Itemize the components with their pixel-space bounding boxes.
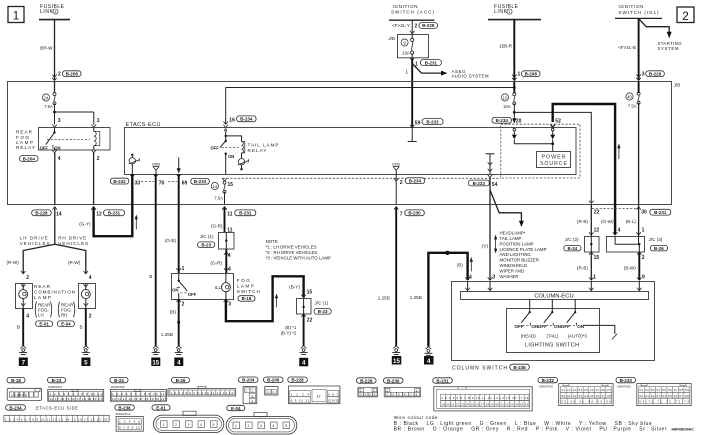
ground 4 (fog switch): [174, 346, 183, 367]
svg-text:7.5A: 7.5A: [44, 104, 53, 109]
svg-text:15: 15: [393, 358, 400, 365]
svg-text:10: 10: [503, 95, 508, 100]
wire G-R J/C(1) to fog switch: [211, 249, 231, 274]
svg-text:SWITCH (IG1): SWITCH (IG1): [619, 10, 659, 15]
pin 2 B-208: [52, 71, 81, 81]
svg-text:LH: LH: [38, 312, 44, 317]
svg-text:4: 4: [273, 424, 275, 428]
svg-text:4: 4: [55, 10, 57, 14]
svg-text:POSITION LAMP: POSITION LAMP: [500, 241, 534, 246]
(HEAD)(TAIL)(AUTO) labels: [521, 334, 588, 339]
svg-text:1 2 3 4 5 6 7 8 9 10 11: 1 2 3 4 5 6 7 8 9 10 11: [112, 392, 165, 396]
svg-text:OFF: OFF: [210, 146, 219, 151]
svg-text:2: 2: [415, 23, 418, 29]
svg-text:4: 4: [228, 253, 231, 259]
ignition switch (ACC) bar: [389, 19, 435, 21]
svg-text:7.5A: 7.5A: [214, 196, 223, 201]
svg-text:1: 1: [509, 10, 511, 14]
svg-text:OFF: OFF: [538, 324, 547, 329]
svg-text:RH: RH: [61, 312, 67, 317]
diode 2 from pin 52: [550, 119, 561, 152]
column switch label B-238: [452, 364, 529, 371]
svg-text:GND: GND: [392, 163, 401, 167]
ignition switch (ACC) label: [391, 4, 434, 14]
fog switch pin 1: [176, 266, 184, 272]
fuse 10 10A: [501, 93, 515, 109]
svg-text:LINK: LINK: [494, 9, 508, 15]
svg-text:(G-R): (G-R): [211, 261, 223, 266]
svg-text:9: 9: [642, 275, 645, 281]
pin 59 entry and stub: [408, 119, 443, 142]
svg-text:4: 4: [200, 423, 202, 427]
svg-text:B-18: B-18: [242, 296, 252, 301]
direction arrow beside ILL- wire: [275, 294, 278, 308]
svg-text:(G-B): (G-B): [165, 238, 177, 243]
pin 54 internal stub: [486, 154, 495, 174]
svg-text:B-230: B-230: [408, 211, 421, 216]
wire down to ETACS pin 16: [223, 88, 256, 128]
ground 4 (J/C1-22): [299, 346, 308, 367]
systems list text: [500, 231, 547, 279]
svg-text:E-01: E-01: [156, 405, 166, 410]
fuse 14 7.5A (tail lamp output): [211, 178, 233, 204]
svg-text:22: 22: [307, 318, 313, 324]
svg-text:2: 2: [175, 423, 177, 427]
fusible link (4) label: [40, 4, 65, 15]
svg-text:LH DRIVE: LH DRIVE: [20, 236, 48, 241]
svg-text:J/C (1): J/C (1): [315, 300, 329, 305]
svg-text:ON: ON: [228, 154, 234, 159]
svg-text:B: B: [149, 274, 152, 279]
NOTE block: [266, 239, 331, 261]
svg-text:15B-R: 15B-R: [499, 44, 513, 49]
pin 54 B-233: [468, 175, 497, 188]
svg-text:IGNITION: IGNITION: [393, 4, 418, 9]
junction block J/B box: [8, 82, 672, 205]
svg-text:RELAY: RELAY: [248, 148, 267, 153]
svg-text:GND: GND: [152, 163, 161, 167]
svg-text:(G-R): (G-R): [211, 224, 223, 229]
svg-text:B-238: B-238: [513, 365, 526, 370]
pin 12 B-231: [91, 207, 124, 218]
svg-text:2: 2: [97, 156, 100, 162]
svg-text:06A637KG: 06A637KG: [617, 384, 631, 388]
wire 1.25B pin7 to ground 15: [378, 207, 396, 346]
svg-text:40: 40: [627, 94, 632, 99]
svg-text:8 9 10 11: 8 9 10 11: [291, 399, 310, 403]
svg-text:E-04: E-04: [61, 322, 71, 327]
svg-text:B-228: B-228: [291, 378, 304, 383]
direction arrow beside (B) wire: [470, 257, 473, 271]
svg-text:RH DRIVE: RH DRIVE: [58, 236, 86, 241]
wire relay pin4 to J/B pin14: [54, 153, 56, 205]
svg-text:(V): (V): [482, 244, 489, 249]
wire BR-W from fusible link 4: [54, 20, 56, 81]
svg-text:1: 1: [13, 9, 20, 23]
wire colors R-W: [7, 260, 81, 265]
svg-text:4: 4: [427, 358, 431, 365]
svg-text:B-208: B-208: [66, 71, 79, 76]
svg-text:REAR: REAR: [34, 284, 51, 289]
svg-text:*1 : LH DRIVE VEHICLES: *1 : LH DRIVE VEHICLES: [266, 245, 317, 250]
svg-text:B-234: B-234: [496, 118, 509, 123]
connector B-238: [115, 405, 144, 431]
svg-text:1 2 3 4 5 6 7 8 9 10 11 12 13: 1 2 3 4 5 6 7 8 9 10 11 12 13 14 15 16 1…: [5, 417, 107, 421]
svg-text:1.25B: 1.25B: [161, 332, 173, 337]
svg-text:33: 33: [135, 180, 141, 186]
svg-text:12: 12: [594, 227, 600, 233]
svg-text:1.25B: 1.25B: [378, 295, 390, 300]
connector B-231: [433, 378, 532, 411]
svg-text:15: 15: [307, 289, 313, 295]
svg-text:<F>2L-B: <F>2L-B: [618, 45, 636, 50]
svg-text:ILL: ILL: [215, 285, 222, 290]
svg-text:3: 3: [260, 424, 262, 428]
thick 1.25B wire to column switch pin 4: [410, 251, 470, 347]
svg-text:2: 2: [182, 302, 185, 308]
svg-text:MONITOR BUZZER: MONITOR BUZZER: [500, 258, 539, 263]
svg-text:E-01: E-01: [39, 322, 49, 327]
J/C(1) pin 22 to ground: [281, 314, 313, 346]
svg-text:2: 2: [248, 424, 250, 428]
svg-text:1: 1: [182, 266, 185, 272]
svg-text:SWITCH (ACC): SWITCH (ACC): [391, 9, 434, 14]
svg-text:(B-W): (B-W): [624, 266, 636, 271]
svg-text:COMBINATION: COMBINATION: [34, 289, 75, 294]
svg-text:1 2 3 4 5 6: 1 2 3 4 5 6: [11, 393, 27, 397]
column switch pin labels: [469, 275, 495, 281]
branch to other systems: [490, 190, 524, 227]
connector B-234: [4, 405, 109, 422]
lighting switch box: [507, 309, 600, 353]
(REAR FOG: RH) label: [58, 302, 75, 318]
svg-text:WINDSHIELD: WINDSHIELD: [500, 263, 528, 268]
svg-text:B-26: B-26: [176, 378, 186, 383]
svg-text:3: 3: [492, 275, 495, 281]
svg-text:12: 12: [96, 211, 102, 217]
rear fog relay coil driver: [129, 154, 140, 174]
connector B-206: [264, 377, 284, 395]
svg-text:WASHER: WASHER: [500, 274, 519, 279]
connector E-01: [152, 405, 224, 433]
svg-text:(TAIL): (TAIL): [547, 334, 559, 339]
ignition switch (IG1) label: [619, 4, 659, 15]
branch to pin 22 (column ECU feed): [514, 112, 593, 203]
svg-text:B-204: B-204: [242, 378, 255, 383]
wire L (ACC feed): [406, 59, 412, 128]
svg-text:30 31 32 33 34 35 36 37 38: 30 31 32 33 34 35 36 37 38: [561, 394, 611, 398]
relay pins 4 and 2: [52, 150, 100, 162]
fusible link (1) label: [494, 4, 519, 15]
connector B-18: [7, 377, 42, 400]
svg-text:J/C (1): J/C (1): [200, 234, 214, 239]
svg-text:J/C (2): J/C (2): [565, 237, 579, 242]
svg-text:1 2 3 4 5: 1 2 3 4 5: [119, 420, 140, 424]
svg-text:2: 2: [642, 255, 645, 261]
svg-text:LINK: LINK: [40, 9, 54, 15]
fusible link (4) symbol: [39, 19, 70, 21]
svg-text:*2 : RH DRIVE VEHICLES: *2 : RH DRIVE VEHICLES: [266, 250, 318, 255]
LH lamp pin 4 and ground wire: [17, 309, 29, 346]
svg-text:B: B: [17, 324, 20, 329]
svg-text:B-232: B-232: [542, 378, 555, 383]
svg-text:B-24: B-24: [114, 378, 124, 383]
svg-text:(B-L): (B-L): [626, 219, 637, 224]
svg-text:70: 70: [159, 180, 165, 186]
svg-text:1 2 3 4 5 6 7 8 9 10 11: 1 2 3 4 5 6 7 8 9 10 11: [49, 392, 102, 396]
svg-text:B-231: B-231: [425, 60, 438, 65]
svg-text:10A: 10A: [503, 104, 511, 109]
pin 1 B-231: [415, 60, 441, 68]
svg-text:ETACS-ECU: ETACS-ECU: [126, 122, 161, 128]
svg-text:LAMP: LAMP: [237, 283, 254, 288]
svg-text:5: 5: [84, 359, 88, 366]
svg-text:13 14 15: 13 14 15: [328, 399, 339, 403]
svg-text:E-04: E-04: [231, 406, 241, 411]
wire fuse40 to pin 30: [638, 103, 640, 205]
svg-text:FOG: FOG: [237, 278, 250, 283]
svg-text:52: 52: [555, 119, 561, 125]
junction connector J/C(1) B-23 (second): [297, 299, 332, 315]
svg-text:21 22 23 24 25 26 27 28 29: 21 22 23 24 25 26 27 28 29: [561, 388, 611, 392]
dashed connector line: [223, 177, 501, 179]
svg-text:(B) *1: (B) *1: [285, 325, 297, 330]
svg-text:1 2 3 4: 1 2 3 4: [291, 392, 310, 396]
svg-text:2: 2: [58, 72, 61, 78]
svg-text:B-233: B-233: [194, 179, 207, 184]
rear combination lamp LH box: [16, 283, 33, 308]
svg-text:1: 1: [97, 118, 100, 124]
svg-text:ON: ON: [172, 287, 178, 292]
tail lamp relay label: [248, 143, 279, 154]
svg-text:7: 7: [400, 211, 403, 217]
wire colour code legend: [394, 415, 667, 432]
svg-text:B-234: B-234: [240, 117, 253, 122]
svg-text:J/B: J/B: [674, 83, 681, 88]
svg-text:12 13 14 15 16 17 18 19 20 21: 12 13 14 15 16 17 18 19 20 21: [112, 397, 165, 401]
svg-text:BR : Brown O : Orange GR: BR : Brown O : Orange GR : Grey R : Red …: [394, 427, 667, 433]
node below fuse 24: [52, 103, 100, 127]
pin69 internal arrow: [177, 158, 181, 174]
svg-text:3: 3: [642, 72, 645, 78]
page ref box 1: [8, 7, 24, 23]
wire R-B pin22 to J/C(2): [577, 204, 599, 236]
fog lamp switch label B-18: [237, 278, 260, 301]
svg-text:ETACS-ECU SIDE: ETACS-ECU SIDE: [36, 406, 78, 411]
rear combination lamp RH box: [79, 283, 96, 308]
wire G-Y pin33 to pin12 (U path): [79, 174, 132, 236]
svg-text:4: 4: [469, 275, 472, 281]
svg-text:B-23: B-23: [201, 242, 211, 247]
svg-text:B-233: B-233: [426, 119, 439, 124]
connector B-204: [239, 377, 259, 404]
ground 7: [19, 346, 28, 367]
svg-text:B-206: B-206: [267, 378, 280, 383]
node below fuse 10: [513, 103, 516, 122]
(REAR FOG: LH) label: [35, 302, 52, 318]
fog lamp switch box: [172, 274, 234, 300]
column switch outer box: [452, 282, 655, 361]
svg-text:B-234: B-234: [409, 179, 422, 184]
ETACS-ECU box: [125, 128, 577, 175]
connector B-24: [110, 377, 166, 401]
svg-text:69: 69: [182, 180, 188, 186]
svg-text:POWER: POWER: [542, 155, 566, 161]
svg-text:22: 22: [594, 209, 600, 215]
fog switch contact: [172, 274, 196, 299]
svg-text:1: 1: [235, 424, 237, 428]
power source box: [537, 152, 571, 168]
svg-text:J/C (3): J/C (3): [649, 237, 663, 242]
rear fog relay contact: [40, 127, 90, 150]
svg-text:VEHICLES: VEHICLES: [58, 241, 88, 246]
svg-text:1.25B: 1.25B: [410, 295, 422, 300]
svg-text:2: 2: [682, 9, 689, 23]
rear fog relay coil: [94, 127, 100, 150]
svg-text:LAMP: LAMP: [34, 295, 51, 300]
svg-text:OFF: OFF: [515, 324, 524, 329]
rear fog lamp relay label: [16, 130, 35, 151]
ETACS ground GND pin70: [152, 163, 161, 175]
connector B-23: [48, 377, 104, 401]
svg-text:7.5A: 7.5A: [628, 104, 637, 109]
svg-text:(HEAD): (HEAD): [521, 334, 537, 339]
wire B-W J/C(3) to column pin 9: [624, 252, 645, 281]
svg-text:B-233: B-233: [620, 378, 633, 383]
svg-text:16: 16: [229, 118, 235, 124]
ground 5: [81, 346, 90, 367]
branch arrow to starting system: [639, 18, 682, 51]
svg-text:HEADLAMP*: HEADLAMP*: [500, 231, 526, 236]
svg-text:OFF: OFF: [188, 292, 197, 297]
svg-text:60 61 62 63 64 65 66 67 68: 60 61 62 63 64 65 66 67 68: [639, 394, 689, 398]
svg-text:51 52 53 54 55 56 57 58 59: 51 52 53 54 55 56 57 58 59: [639, 388, 689, 392]
svg-text:B-228: B-228: [422, 23, 435, 28]
lamp pin labels: [21, 271, 92, 281]
svg-text:(B-Y): (B-Y): [289, 285, 300, 290]
svg-text:15: 15: [594, 255, 600, 261]
svg-text:4: 4: [177, 359, 181, 366]
wire relay pin2 to J/B pin12: [93, 153, 95, 205]
ground 4 (column switch): [424, 347, 434, 365]
pin 7 B-230: [394, 207, 424, 218]
junction connector J/C(1) B-23: [198, 232, 234, 249]
svg-text:B-23: B-23: [52, 378, 62, 383]
ETACS pin 70: [153, 174, 164, 186]
fuse 24 7.5A: [42, 82, 56, 109]
svg-text:1: 1: [642, 227, 645, 233]
lighting switch OFF/ON labels: [515, 323, 585, 329]
svg-text:ON: ON: [54, 146, 60, 151]
svg-text:1: 1: [163, 423, 165, 427]
svg-text:IGNITION: IGNITION: [619, 4, 644, 9]
svg-text:(G-Y): (G-Y): [79, 222, 91, 227]
svg-text:5 6 7: 5 6 7: [328, 392, 338, 396]
svg-text:OFF: OFF: [40, 146, 49, 151]
svg-text:20: 20: [516, 119, 522, 125]
svg-text:54: 54: [492, 182, 498, 188]
ETACS pin 69 B-233: [176, 174, 209, 186]
svg-text:MU801513: MU801513: [48, 385, 62, 389]
wire G-W label and pin 4: [601, 219, 621, 235]
svg-text:1 2 3 4 5 6 7 8 9 10 11 12 13: 1 2 3 4 5 6 7 8 9 10 11 12 13 14: [170, 391, 233, 395]
pin 20 B-234: [492, 117, 522, 124]
connector labels E-01 E-04: [36, 321, 75, 327]
power source diodes: [512, 128, 553, 144]
connector B-229: [357, 378, 378, 397]
thick G-W wire pin52 to J/C(3): [550, 104, 615, 235]
J/B fuse box at ACC: [388, 35, 428, 58]
svg-text:2: 2: [89, 314, 92, 320]
fuse 9 10A: [401, 31, 414, 61]
svg-text:(R-W): (R-W): [68, 260, 81, 265]
svg-text:B-26: B-26: [654, 246, 664, 251]
svg-text:LICENCE PLATE LAMP: LICENCE PLATE LAMP: [500, 247, 547, 252]
svg-text:06A637KG: 06A637KG: [539, 384, 553, 388]
svg-text:B-24: B-24: [568, 246, 578, 251]
svg-text:J/B: J/B: [388, 36, 395, 41]
svg-text:3: 3: [188, 423, 190, 427]
svg-text:B-230: B-230: [387, 378, 400, 383]
wire pin14 split: [23, 207, 86, 274]
svg-text:RELAY: RELAY: [16, 145, 35, 150]
svg-text:4: 4: [228, 266, 231, 272]
fuse 40 7.5A: [626, 82, 640, 109]
svg-text:(B): (B): [170, 310, 177, 315]
svg-text:2: 2: [400, 180, 403, 186]
connector E-04: [226, 405, 297, 434]
wire 2L-B: [618, 18, 638, 80]
lighting switch contacts: [521, 299, 576, 323]
wire B-Y to J/C(1) pin 15: [289, 285, 312, 298]
pin 2 B-228: [415, 23, 438, 30]
svg-text:11: 11: [227, 211, 233, 217]
svg-text:2: 2: [26, 275, 29, 281]
connector B-233: [616, 377, 691, 405]
svg-text:B-208: B-208: [525, 71, 538, 76]
wire G-B pin69 to fog switch pin1: [165, 174, 179, 274]
connector B-230: [384, 378, 421, 397]
svg-text:SYSTEM: SYSTEM: [658, 46, 679, 51]
svg-text:AUDIO SYSTEM: AUDIO SYSTEM: [452, 74, 489, 79]
junction connector J/C(3) B-26: [607, 236, 668, 252]
ETACS pin 33 B-232: [110, 174, 140, 186]
svg-text:(R-B): (R-B): [577, 266, 588, 271]
svg-text:1 2 3 4 5 6 7 8 9 10 11 12 13: 1 2 3 4 5 6 7 8 9 10 11 12 13 14 15 16 1…: [441, 396, 528, 400]
svg-text:B-228: B-228: [35, 211, 48, 216]
svg-text:(B-Y) *2: (B-Y) *2: [281, 331, 297, 336]
svg-text:L: L: [406, 70, 409, 76]
svg-text:7: 7: [22, 359, 26, 366]
tail lamp relay coil: [226, 136, 245, 158]
svg-text:30: 30: [641, 209, 647, 215]
fog switch pin 2 earth wire: [161, 299, 185, 346]
wire R-B J/C(2) to column pin 1: [577, 252, 599, 281]
svg-text:4: 4: [26, 314, 29, 320]
svg-text:06A637K14: 06A637K14: [116, 412, 131, 416]
fog switch pin 3 ILL- wire: [224, 276, 304, 321]
svg-text:(B): (B): [457, 263, 464, 268]
svg-text:NOTE: NOTE: [266, 239, 278, 244]
pin 1 B-208: [512, 71, 540, 81]
dashed between 22 and 30: [592, 208, 638, 210]
svg-text:10A: 10A: [402, 51, 410, 56]
pin 2 B-234 (gnd): [394, 178, 425, 205]
svg-text:4: 4: [58, 156, 61, 162]
LH/RH drive labels: [20, 236, 89, 246]
svg-text:1: 1: [518, 72, 521, 78]
svg-text:COLUMN-ECU: COLUMN-ECU: [534, 294, 573, 300]
